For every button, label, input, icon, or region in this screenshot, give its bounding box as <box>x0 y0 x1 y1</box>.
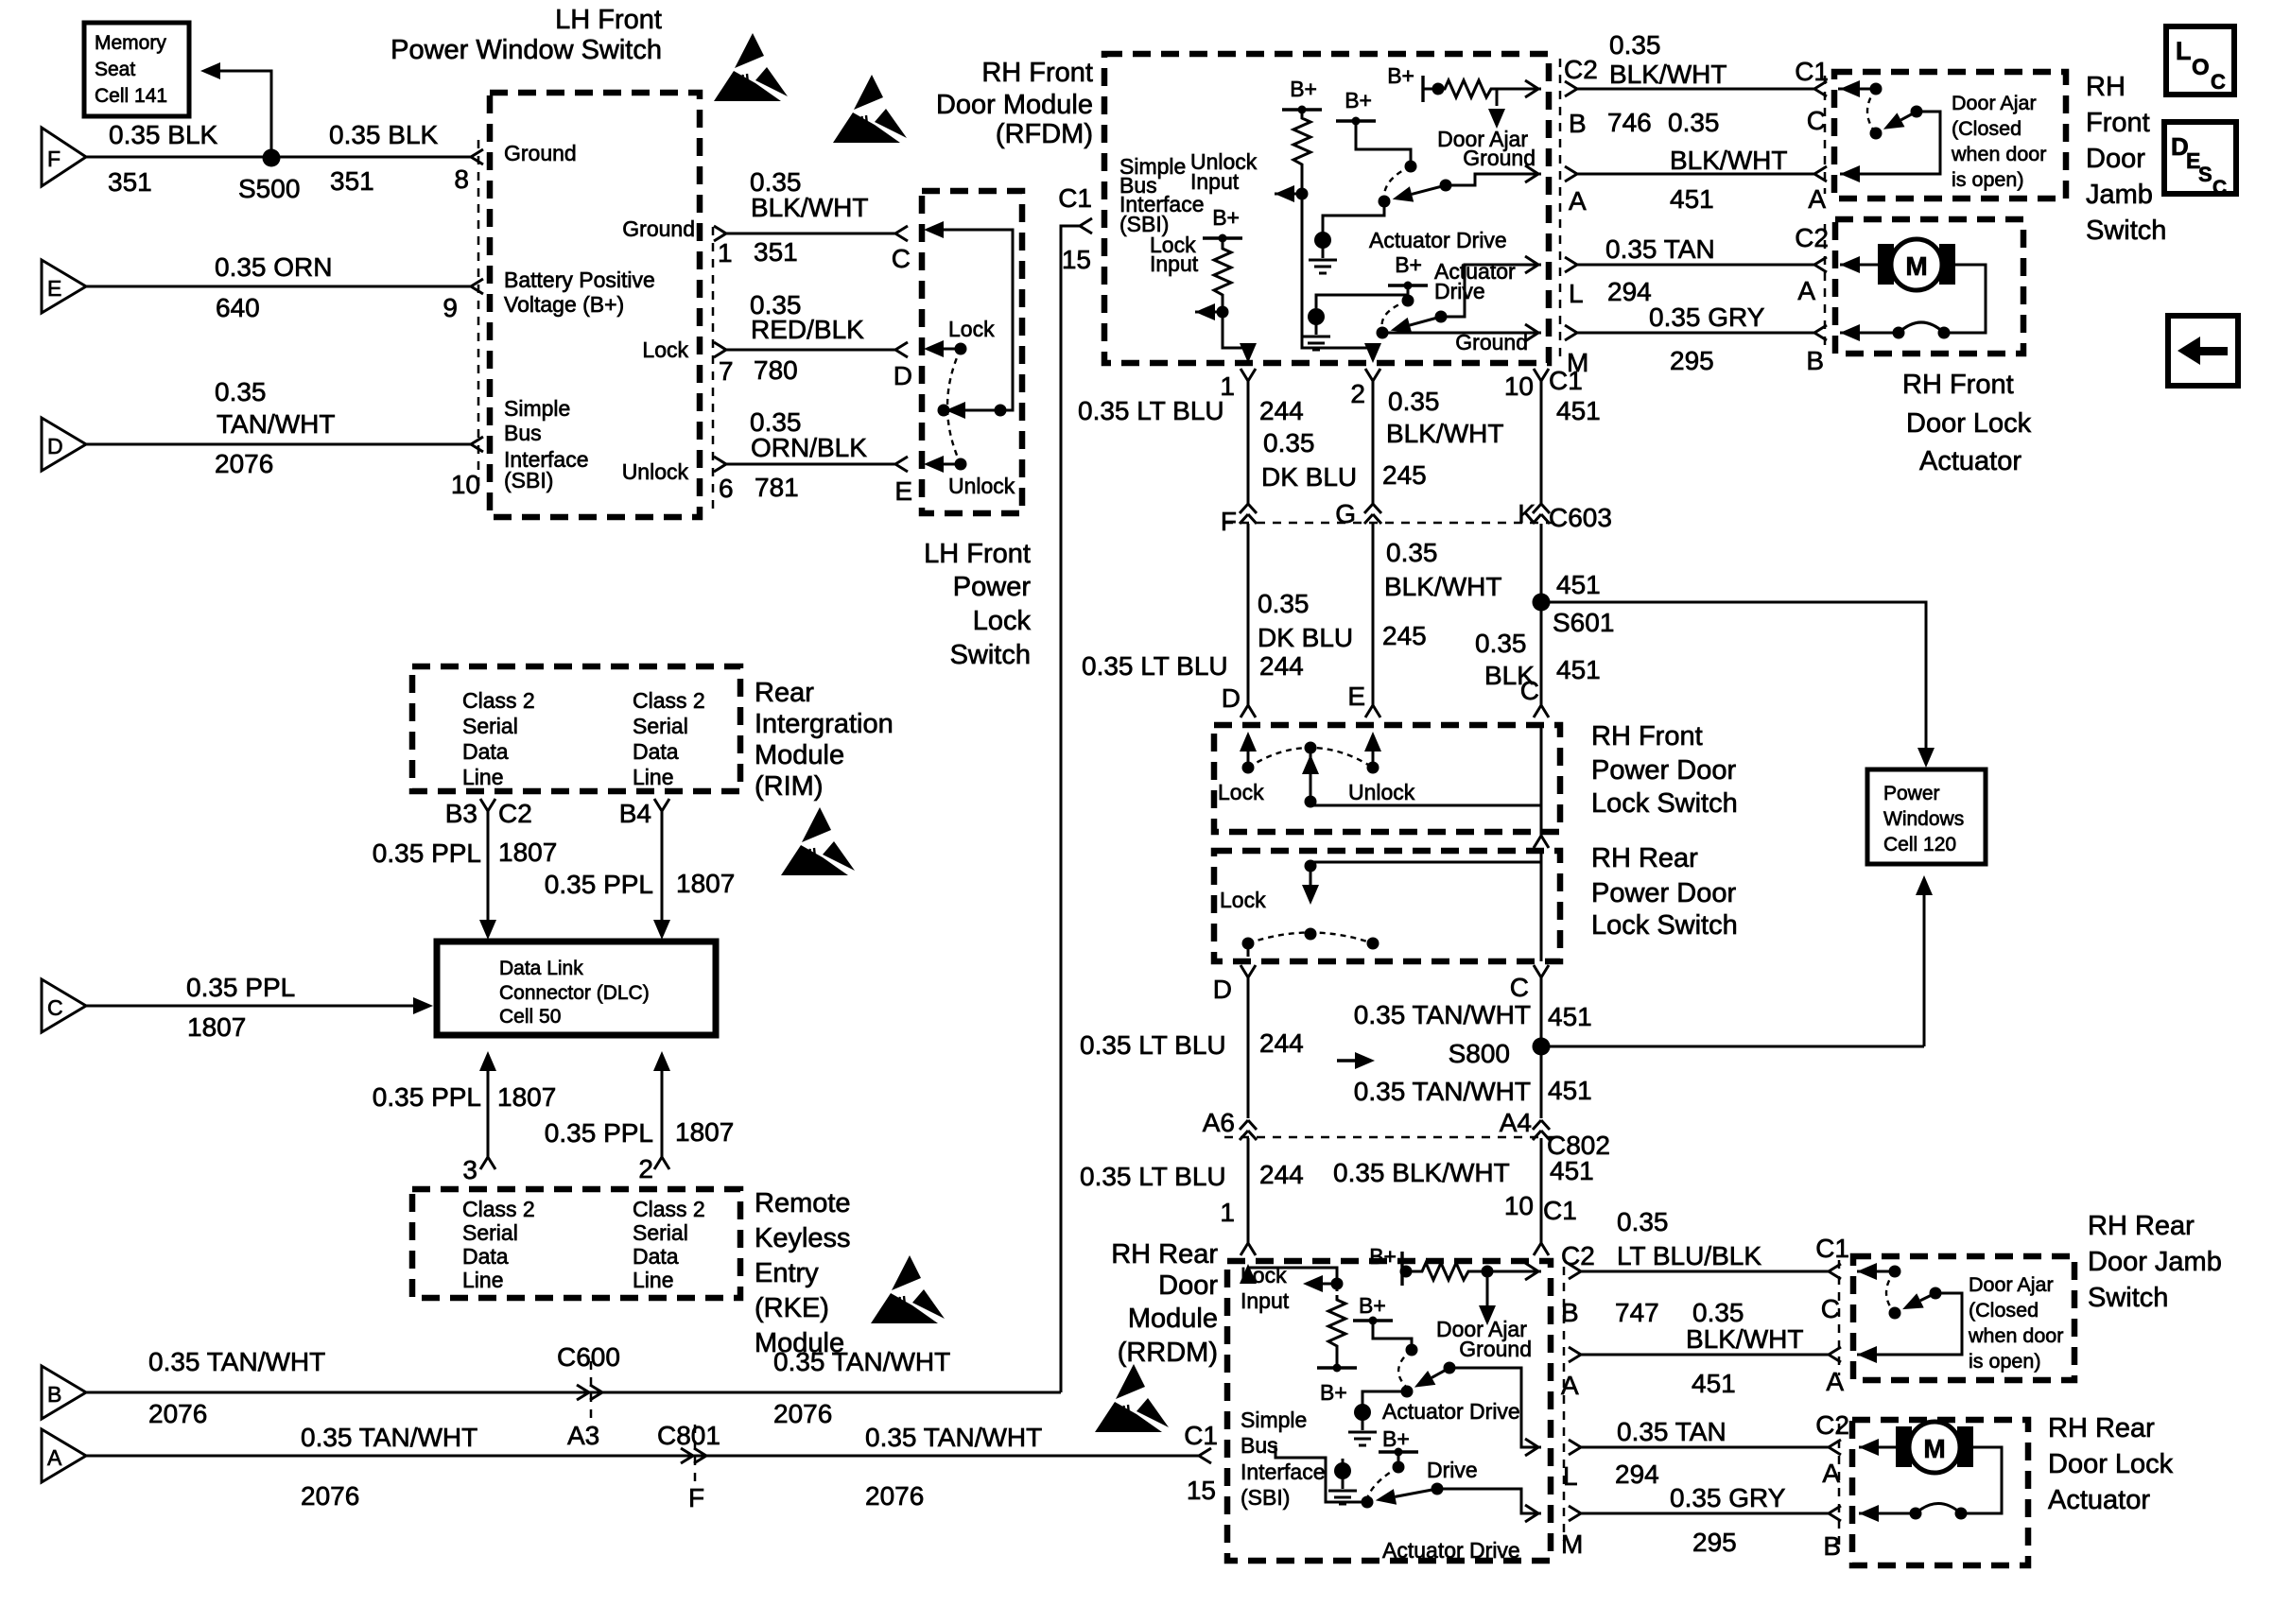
svg-text:(RKE): (RKE) <box>755 1293 829 1323</box>
svg-text:0.35 PPL: 0.35 PPL <box>373 838 481 868</box>
svg-text:0.35: 0.35 <box>1668 108 1720 137</box>
svg-text:C1: C1 <box>1184 1421 1218 1450</box>
svg-text:0.35 TAN/WHT: 0.35 TAN/WHT <box>301 1423 477 1452</box>
svg-text:451: 451 <box>1556 570 1601 599</box>
svg-text:Door Ajar: Door Ajar <box>1952 92 2037 114</box>
svg-text:Cell 50: Cell 50 <box>499 1006 561 1028</box>
svg-text:0.35: 0.35 <box>1692 1298 1744 1327</box>
svg-text:S500: S500 <box>238 174 300 203</box>
svg-text:2076: 2076 <box>215 449 273 478</box>
svg-text:10: 10 <box>451 470 480 499</box>
svg-text:451: 451 <box>1670 184 1714 214</box>
svg-text:0.35: 0.35 <box>1388 387 1440 416</box>
svg-text:F: F <box>1221 507 1237 536</box>
svg-text:245: 245 <box>1382 460 1427 490</box>
svg-text:BLK/WHT: BLK/WHT <box>1609 60 1726 89</box>
svg-text:F: F <box>688 1483 704 1512</box>
svg-text:Lock Switch: Lock Switch <box>1591 910 1738 941</box>
svg-text:BLK/WHT: BLK/WHT <box>1686 1324 1803 1354</box>
svg-text:B+: B+ <box>1395 252 1422 277</box>
svg-text:0.35 LT BLU: 0.35 LT BLU <box>1078 396 1224 425</box>
svg-text:Door Jamb: Door Jamb <box>2088 1247 2222 1277</box>
svg-text:0.35 TAN/WHT: 0.35 TAN/WHT <box>865 1423 1042 1452</box>
svg-text:RH: RH <box>2086 72 2126 102</box>
svg-text:Power Window Switch: Power Window Switch <box>390 35 662 65</box>
svg-text:Interface: Interface <box>1241 1460 1326 1484</box>
svg-text:0.35: 0.35 <box>1609 30 1661 60</box>
svg-text:0.35 PPL: 0.35 PPL <box>545 870 653 899</box>
svg-text:Ground: Ground <box>622 216 695 241</box>
svg-text:Power: Power <box>1883 783 1940 804</box>
svg-text:K: K <box>1518 499 1536 528</box>
svg-text:15: 15 <box>1062 245 1091 274</box>
svg-text:M: M <box>1561 1529 1583 1559</box>
svg-text:747: 747 <box>1615 1298 1659 1327</box>
svg-text:(SBI): (SBI) <box>1241 1485 1290 1510</box>
svg-text:Power Door: Power Door <box>1591 878 1736 908</box>
svg-text:Unlock: Unlock <box>622 459 689 484</box>
svg-text:0.35: 0.35 <box>1386 538 1438 567</box>
svg-text:Actuator: Actuator <box>2048 1485 2150 1515</box>
svg-text:BLK/WHT: BLK/WHT <box>751 193 868 222</box>
svg-text:Battery Positive: Battery Positive <box>504 268 655 292</box>
svg-text:C: C <box>2212 177 2227 199</box>
svg-text:351: 351 <box>330 166 374 196</box>
svg-text:BLK/WHT: BLK/WHT <box>1386 419 1503 448</box>
svg-text:Lock: Lock <box>973 606 1032 636</box>
svg-text:D: D <box>47 434 63 458</box>
svg-text:B+: B+ <box>1369 1244 1397 1269</box>
svg-text:Unlock: Unlock <box>948 474 1015 498</box>
svg-text:Door Lock: Door Lock <box>1906 408 2032 439</box>
svg-text:451: 451 <box>1548 1002 1592 1031</box>
svg-text:351: 351 <box>754 237 798 267</box>
svg-text:245: 245 <box>1382 621 1427 650</box>
svg-text:Data: Data <box>462 739 509 764</box>
svg-text:0.35 LT BLU: 0.35 LT BLU <box>1080 1162 1226 1191</box>
svg-text:Remote: Remote <box>755 1188 851 1218</box>
svg-text:2: 2 <box>638 1154 653 1183</box>
svg-text:0.35 LT BLU: 0.35 LT BLU <box>1082 651 1228 681</box>
svg-text:(Closed: (Closed <box>1952 117 2021 140</box>
svg-text:Intergration: Intergration <box>755 709 894 739</box>
svg-text:Cell 141: Cell 141 <box>95 85 167 107</box>
svg-text:Input: Input <box>1190 169 1240 194</box>
svg-text:B+: B+ <box>1382 1426 1410 1451</box>
svg-text:B+: B+ <box>1345 88 1372 112</box>
svg-text:C1: C1 <box>1795 57 1829 86</box>
svg-text:C2: C2 <box>1561 1241 1595 1270</box>
svg-text:is open): is open) <box>1952 168 2024 191</box>
svg-text:Drive: Drive <box>1434 279 1485 303</box>
svg-text:Class 2: Class 2 <box>633 688 705 713</box>
svg-text:2076: 2076 <box>773 1399 832 1428</box>
svg-text:1807: 1807 <box>676 869 735 898</box>
svg-text:294: 294 <box>1615 1460 1659 1489</box>
svg-text:TAN/WHT: TAN/WHT <box>217 409 335 439</box>
svg-text:Module: Module <box>1128 1304 1218 1334</box>
svg-text:B4: B4 <box>619 799 651 828</box>
svg-text:B: B <box>47 1382 61 1407</box>
svg-text:Door: Door <box>1158 1270 1218 1301</box>
svg-text:C: C <box>1807 106 1826 135</box>
svg-text:9: 9 <box>442 293 458 322</box>
svg-text:A: A <box>1826 1367 1844 1396</box>
svg-text:Actuator Drive: Actuator Drive <box>1382 1538 1520 1563</box>
svg-text:0.35 TAN/WHT: 0.35 TAN/WHT <box>148 1347 325 1376</box>
svg-text:RED/BLK: RED/BLK <box>751 315 864 344</box>
svg-text:S: S <box>2198 163 2212 186</box>
svg-text:244: 244 <box>1259 1028 1304 1058</box>
svg-text:Line: Line <box>633 1268 673 1292</box>
svg-text:Lock: Lock <box>642 337 688 362</box>
svg-text:Data Link: Data Link <box>499 958 583 979</box>
svg-text:Door Module: Door Module <box>936 90 1093 120</box>
svg-text:Memory: Memory <box>95 32 166 54</box>
svg-text:Input: Input <box>1150 251 1199 276</box>
svg-text:S800: S800 <box>1449 1039 1510 1068</box>
svg-text:451: 451 <box>1548 1076 1592 1105</box>
svg-text:Power: Power <box>953 572 1032 602</box>
svg-text:A: A <box>1822 1459 1840 1488</box>
svg-text:Line: Line <box>462 765 503 789</box>
svg-text:2076: 2076 <box>148 1399 207 1428</box>
svg-text:C: C <box>892 244 911 273</box>
svg-text:451: 451 <box>1692 1369 1736 1398</box>
svg-text:B+: B+ <box>1359 1293 1386 1318</box>
svg-text:Ground: Ground <box>504 141 577 165</box>
svg-text:BLK/WHT: BLK/WHT <box>1670 146 1787 175</box>
svg-text:C1: C1 <box>1058 183 1092 213</box>
svg-text:RH Front: RH Front <box>1902 370 2014 400</box>
svg-text:Serial: Serial <box>462 1220 518 1245</box>
svg-text:B+: B+ <box>1320 1380 1347 1405</box>
svg-text:0.35: 0.35 <box>1263 428 1315 458</box>
svg-text:Keyless: Keyless <box>755 1223 851 1253</box>
svg-text:1807: 1807 <box>675 1117 734 1147</box>
svg-text:A: A <box>1561 1371 1579 1400</box>
svg-text:0.35 PPL: 0.35 PPL <box>186 973 295 1002</box>
svg-text:C: C <box>2211 70 2226 94</box>
svg-text:C: C <box>47 995 63 1020</box>
svg-text:Bus: Bus <box>504 421 542 445</box>
svg-text:LH Front: LH Front <box>924 539 1031 569</box>
svg-text:295: 295 <box>1692 1528 1737 1557</box>
svg-text:Switch: Switch <box>950 640 1031 670</box>
svg-text:C: C <box>1510 973 1529 1002</box>
svg-text:2076: 2076 <box>301 1481 359 1511</box>
svg-text:RH Rear: RH Rear <box>1591 843 1698 873</box>
svg-text:0.35 GRY: 0.35 GRY <box>1649 302 1765 332</box>
svg-text:0.35 TAN: 0.35 TAN <box>1617 1417 1726 1446</box>
svg-text:BLK/WHT: BLK/WHT <box>1384 572 1501 601</box>
svg-text:Voltage (B+): Voltage (B+) <box>504 292 624 317</box>
svg-text:0.35 LT BLU: 0.35 LT BLU <box>1080 1030 1226 1060</box>
svg-text:2076: 2076 <box>865 1481 924 1511</box>
svg-text:Simple: Simple <box>1241 1408 1307 1432</box>
svg-text:Rear: Rear <box>755 678 814 708</box>
svg-text:1: 1 <box>1220 1198 1235 1227</box>
svg-text:G: G <box>1335 499 1356 528</box>
svg-text:(RRDM): (RRDM) <box>1118 1338 1218 1368</box>
svg-text:Door: Door <box>2086 144 2145 174</box>
svg-text:Ground: Ground <box>1459 1337 1532 1361</box>
svg-text:A: A <box>1808 184 1826 214</box>
svg-text:D: D <box>894 361 912 390</box>
svg-text:A: A <box>1569 186 1587 216</box>
svg-text:0.35 GRY: 0.35 GRY <box>1670 1483 1786 1512</box>
svg-text:Front: Front <box>2086 108 2150 138</box>
svg-text:C1: C1 <box>1543 1196 1577 1225</box>
svg-text:D: D <box>1222 683 1241 713</box>
svg-text:L: L <box>1569 279 1584 308</box>
svg-text:E: E <box>1347 682 1365 711</box>
svg-text:0.35 TAN/WHT: 0.35 TAN/WHT <box>1354 1000 1531 1029</box>
svg-text:B+: B+ <box>1387 63 1414 88</box>
svg-text:B: B <box>1569 109 1587 138</box>
svg-text:Lock: Lock <box>948 317 995 341</box>
svg-text:D: D <box>1213 975 1232 1004</box>
svg-text:Actuator Drive: Actuator Drive <box>1369 228 1507 252</box>
svg-text:DK BLU: DK BLU <box>1261 462 1357 492</box>
svg-text:RH Front: RH Front <box>981 58 1093 88</box>
svg-text:0.35 TAN/WHT: 0.35 TAN/WHT <box>1354 1077 1531 1106</box>
svg-text:C1: C1 <box>1549 366 1583 395</box>
svg-text:Seat: Seat <box>95 59 135 80</box>
svg-text:C2: C2 <box>1564 55 1598 84</box>
svg-text:Line: Line <box>633 765 673 789</box>
svg-text:Data: Data <box>633 1244 679 1269</box>
svg-text:C2: C2 <box>498 799 532 828</box>
svg-text:Bus: Bus <box>1241 1433 1278 1458</box>
svg-text:Serial: Serial <box>633 1220 688 1245</box>
svg-text:B: B <box>1823 1531 1841 1561</box>
svg-text:L: L <box>1563 1461 1578 1491</box>
svg-text:F: F <box>47 147 61 171</box>
svg-text:0.35 TAN/WHT: 0.35 TAN/WHT <box>773 1347 950 1376</box>
svg-text:1: 1 <box>718 238 733 268</box>
svg-text:E: E <box>894 476 912 506</box>
svg-text:10: 10 <box>1504 371 1534 401</box>
svg-text:3: 3 <box>462 1155 477 1184</box>
svg-text:1807: 1807 <box>187 1012 246 1042</box>
svg-text:(RIM): (RIM) <box>755 771 823 802</box>
svg-text:Line: Line <box>462 1268 503 1292</box>
svg-text:E: E <box>47 276 61 301</box>
svg-text:295: 295 <box>1670 346 1714 375</box>
svg-text:(SBI): (SBI) <box>504 468 553 492</box>
svg-text:Lock: Lock <box>1220 888 1266 912</box>
svg-text:Input: Input <box>1241 1288 1290 1313</box>
svg-text:B: B <box>1806 346 1824 375</box>
svg-text:15: 15 <box>1187 1476 1216 1505</box>
svg-text:0.35: 0.35 <box>215 377 267 406</box>
svg-text:Serial: Serial <box>633 714 688 738</box>
svg-text:244: 244 <box>1259 1160 1304 1189</box>
svg-text:0.35 TAN: 0.35 TAN <box>1605 234 1715 264</box>
svg-text:L: L <box>2176 37 2192 65</box>
svg-text:RH Rear: RH Rear <box>1111 1239 1218 1270</box>
svg-text:0.35 BLK/WHT: 0.35 BLK/WHT <box>1333 1158 1510 1187</box>
svg-text:Data: Data <box>462 1244 509 1269</box>
svg-text:351: 351 <box>108 167 152 197</box>
svg-text:Lock: Lock <box>1218 780 1264 804</box>
svg-text:(Closed: (Closed <box>1969 1299 2039 1322</box>
svg-text:0.35 BLK: 0.35 BLK <box>329 120 439 149</box>
svg-text:451: 451 <box>1556 655 1601 684</box>
svg-text:Class 2: Class 2 <box>462 688 535 713</box>
svg-text:Connector (DLC): Connector (DLC) <box>499 982 650 1004</box>
svg-text:781: 781 <box>755 473 799 502</box>
svg-text:RH Rear: RH Rear <box>2088 1211 2195 1241</box>
svg-text:6: 6 <box>719 474 734 503</box>
svg-text:Switch: Switch <box>2086 216 2166 246</box>
svg-text:A6: A6 <box>1203 1108 1235 1137</box>
svg-text:Door Ajar: Door Ajar <box>1969 1273 2054 1296</box>
svg-text:Power Door: Power Door <box>1591 755 1736 786</box>
svg-text:DK BLU: DK BLU <box>1258 623 1353 652</box>
svg-text:7: 7 <box>719 356 734 386</box>
svg-text:C: C <box>1821 1294 1840 1323</box>
svg-text:Unlock: Unlock <box>1348 780 1415 804</box>
svg-text:0.35 BLK: 0.35 BLK <box>109 120 218 149</box>
svg-text:2: 2 <box>1350 379 1365 408</box>
svg-text:780: 780 <box>754 355 798 385</box>
svg-text:A3: A3 <box>567 1421 599 1450</box>
svg-text:Actuator Drive: Actuator Drive <box>1382 1399 1520 1424</box>
svg-text:Entry: Entry <box>755 1258 819 1288</box>
svg-text:C2: C2 <box>1795 223 1829 252</box>
svg-text:Drive: Drive <box>1427 1458 1478 1482</box>
svg-text:1807: 1807 <box>497 1082 556 1112</box>
svg-text:C603: C603 <box>1549 503 1612 532</box>
svg-text:LT BLU/BLK: LT BLU/BLK <box>1617 1241 1761 1270</box>
svg-text:0.35 PPL: 0.35 PPL <box>545 1118 653 1148</box>
svg-text:Module: Module <box>755 740 844 770</box>
svg-text:RH Rear: RH Rear <box>2048 1413 2155 1443</box>
svg-text:Door Lock: Door Lock <box>2048 1449 2174 1479</box>
svg-text:Actuator: Actuator <box>1919 446 2021 476</box>
svg-text:244: 244 <box>1259 651 1304 681</box>
svg-text:Lock Switch: Lock Switch <box>1591 788 1738 819</box>
svg-text:0.35: 0.35 <box>1617 1207 1669 1236</box>
svg-text:Class 2: Class 2 <box>462 1197 535 1221</box>
svg-text:Data: Data <box>633 739 679 764</box>
svg-text:1807: 1807 <box>498 838 557 867</box>
svg-text:A: A <box>1797 276 1815 305</box>
svg-text:0.35: 0.35 <box>1258 589 1310 618</box>
svg-text:O: O <box>2192 55 2210 80</box>
svg-text:Jamb: Jamb <box>2086 180 2153 210</box>
svg-text:Windows: Windows <box>1883 808 1964 830</box>
svg-text:Serial: Serial <box>462 714 518 738</box>
svg-text:ORN/BLK: ORN/BLK <box>751 433 867 462</box>
svg-text:10: 10 <box>1504 1191 1534 1220</box>
svg-text:B+: B+ <box>1212 205 1240 230</box>
svg-text:B3: B3 <box>445 799 477 828</box>
svg-text:C2: C2 <box>1815 1410 1849 1440</box>
svg-text:C600: C600 <box>557 1342 620 1372</box>
svg-text:Switch: Switch <box>2088 1283 2168 1313</box>
svg-text:244: 244 <box>1259 396 1304 425</box>
svg-text:is open): is open) <box>1969 1350 2041 1373</box>
svg-text:451: 451 <box>1550 1156 1594 1185</box>
svg-text:when door: when door <box>1968 1324 2063 1347</box>
svg-text:0.35 PPL: 0.35 PPL <box>373 1082 481 1112</box>
svg-text:(RFDM): (RFDM) <box>996 119 1093 149</box>
svg-text:746: 746 <box>1607 108 1652 137</box>
svg-text:451: 451 <box>1556 396 1601 425</box>
svg-text:294: 294 <box>1607 277 1652 306</box>
svg-text:B: B <box>1561 1298 1579 1327</box>
svg-text:RH Front: RH Front <box>1591 721 1703 752</box>
svg-text:C: C <box>1520 676 1539 705</box>
svg-text:Cell 120: Cell 120 <box>1883 834 1956 855</box>
svg-text:8: 8 <box>454 164 469 194</box>
svg-text:0.35 ORN: 0.35 ORN <box>215 252 333 282</box>
svg-text:S601: S601 <box>1553 608 1614 637</box>
svg-text:A4: A4 <box>1500 1108 1532 1137</box>
svg-text:Class 2: Class 2 <box>633 1197 705 1221</box>
svg-text:A: A <box>47 1445 62 1470</box>
svg-text:LH Front: LH Front <box>555 5 662 35</box>
svg-text:Simple: Simple <box>504 396 570 421</box>
svg-text:640: 640 <box>216 293 260 322</box>
svg-text:B+: B+ <box>1290 77 1317 101</box>
svg-text:C1: C1 <box>1815 1234 1849 1263</box>
svg-text:C801: C801 <box>657 1421 720 1450</box>
svg-text:0.35: 0.35 <box>1475 629 1527 658</box>
svg-text:when door: when door <box>1951 143 2046 165</box>
